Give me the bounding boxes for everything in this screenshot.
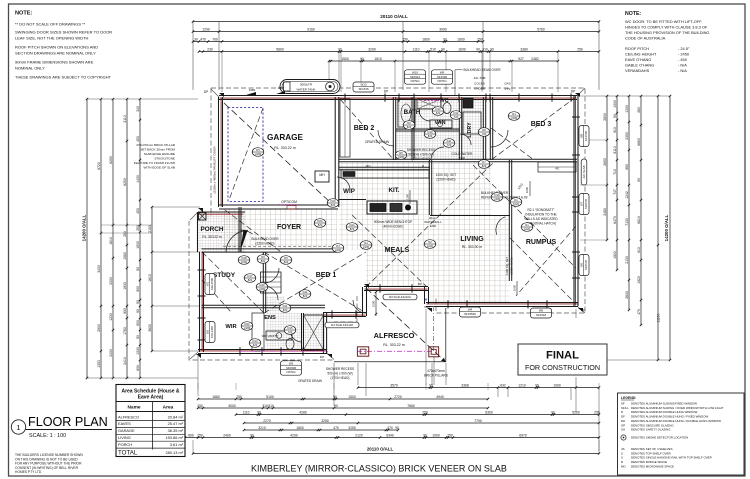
svg-text:ENS: ENS (264, 315, 276, 321)
svg-text:D12: D12 (454, 111, 459, 115)
svg-text:(1700 HEAD): (1700 HEAD) (331, 376, 350, 380)
svg-text:W4: W4 (468, 308, 473, 312)
svg-text:90: 90 (338, 47, 342, 51)
svg-text:SF1505: SF1505 (584, 131, 588, 142)
svg-text:FOYER: FOYER (277, 224, 301, 231)
svg-text:90: 90 (443, 37, 447, 41)
svg-text:MO: MO (366, 164, 371, 168)
svg-text:1690: 1690 (458, 47, 466, 51)
svg-text:820: 820 (284, 260, 289, 264)
svg-text:90: 90 (136, 267, 140, 271)
svg-text:250: 250 (447, 433, 453, 437)
svg-text:RL. 303.22 m: RL. 303.22 m (383, 343, 405, 347)
svg-text:LIVING: LIVING (118, 435, 131, 440)
svg-text:620: 620 (253, 343, 258, 347)
svg-text:90: 90 (613, 114, 617, 118)
svg-text:1000: 1000 (613, 100, 617, 108)
svg-text:510: 510 (430, 47, 436, 51)
svg-text:D10: D10 (428, 130, 433, 134)
svg-text:GAS: GAS (504, 82, 510, 86)
svg-text:D1: D1 (514, 198, 518, 202)
svg-text:L'DRY: L'DRY (467, 122, 473, 138)
svg-text:1610: 1610 (374, 57, 382, 61)
svg-text:3570: 3570 (390, 383, 398, 387)
svg-text:90: 90 (476, 47, 480, 51)
svg-text:SHOWER RECESS: SHOWER RECESS (326, 367, 354, 371)
svg-text:D20: D20 (260, 283, 265, 287)
svg-text:- N/A: - N/A (678, 68, 687, 73)
svg-text:(2200 HEAD): (2200 HEAD) (510, 257, 514, 274)
svg-text:LIVING: LIVING (460, 236, 484, 243)
svg-text:ALFRESCO: ALFRESCO (118, 414, 139, 419)
window jamb ticks on walls (344, 94, 346, 102)
svg-text:HINGES TO COMPLY WITH CLAUSE 3: HINGES TO COMPLY WITH CLAUSE 3.8.3 OF (625, 25, 708, 30)
svg-text:2350: 2350 (625, 132, 629, 140)
DP markers (219, 93, 224, 97)
svg-text:700: 700 (212, 37, 218, 41)
svg-text:SECTION DRAWINGS ARE NOMINAL O: SECTION DRAWINGS ARE NOMINAL ONLY (15, 51, 96, 56)
svg-text:BED 3: BED 3 (531, 121, 552, 128)
svg-text:990: 990 (625, 164, 629, 170)
svg-text:2300: 2300 (109, 277, 113, 285)
svg-text:D11: D11 (283, 304, 288, 308)
svg-text:250: 250 (136, 225, 140, 231)
svg-text:GARAGE: GARAGE (118, 428, 135, 433)
svg-text:1190: 1190 (406, 194, 410, 200)
svg-text:3000LTR: 3000LTR (300, 82, 313, 86)
svg-text:UNDER: UNDER (474, 87, 486, 91)
svg-text:** DO NOT SCALE OFF DRAWINGS *: ** DO NOT SCALE OFF DRAWINGS ** (15, 22, 86, 27)
svg-text:20110 O/ALL: 20110 O/ALL (380, 14, 408, 19)
svg-text:1350: 1350 (97, 360, 101, 368)
svg-text:1610: 1610 (109, 237, 113, 245)
svg-text:3400: 3400 (97, 265, 101, 273)
svg-text:90: 90 (257, 410, 261, 414)
svg-text:WITH EDGE OF SLAB: WITH EDGE OF SLAB (144, 166, 175, 170)
svg-text:D2: D2 (428, 240, 432, 244)
svg-text:3250: 3250 (321, 419, 329, 423)
svg-text:D1: D1 (525, 223, 529, 227)
svg-text:310: 310 (262, 404, 268, 408)
svg-text:D22: D22 (245, 322, 250, 326)
svg-text:3990: 3990 (439, 27, 447, 31)
svg-text:BRICK PILLARS: BRICK PILLARS (424, 374, 448, 378)
svg-text:470: 470 (637, 309, 641, 315)
svg-text:WATER TANK: WATER TANK (296, 87, 315, 91)
svg-text:250: 250 (577, 47, 583, 51)
svg-text:PORCH: PORCH (200, 226, 223, 233)
svg-text:6660: 6660 (637, 138, 641, 146)
svg-text:6810: 6810 (637, 216, 641, 224)
svg-text:250: 250 (123, 231, 127, 237)
svg-text:20.84 m²: 20.84 m² (168, 414, 184, 419)
door swing arcs (226, 231, 248, 253)
svg-text:4S: 4S (555, 167, 559, 171)
svg-text:470: 470 (200, 37, 206, 41)
svg-text:1800: 1800 (296, 426, 304, 430)
svg-text:D5: D5 (256, 148, 260, 152)
legend box (618, 393, 745, 475)
svg-text:820: 820 (482, 164, 487, 168)
svg-text:470: 470 (387, 426, 393, 430)
svg-text:1200: 1200 (109, 313, 113, 321)
svg-text:90: 90 (136, 309, 140, 313)
svg-text:6720: 6720 (97, 162, 101, 170)
svg-text:632: 632 (500, 383, 506, 387)
svg-text:W3: W3 (289, 361, 294, 365)
svg-text:6470: 6470 (613, 216, 617, 224)
svg-text:747: 747 (613, 189, 617, 195)
svg-text:FMR: FMR (249, 88, 256, 92)
svg-text:D3 SGD-F4210A: D3 SGD-F4210A (389, 295, 411, 299)
porch brick pillar (199, 213, 207, 221)
svg-text:820: 820 (350, 227, 355, 231)
svg-text:90: 90 (136, 335, 140, 339)
svg-text:Name: Name (127, 405, 140, 411)
svg-text:9160: 9160 (307, 27, 315, 31)
svg-text:250: 250 (594, 410, 600, 414)
svg-text:900: 900 (136, 320, 140, 326)
svg-text:90: 90 (535, 383, 539, 387)
svg-text:1500: 1500 (348, 395, 356, 399)
svg-text:(1700 HEAD): (1700 HEAD) (412, 157, 431, 161)
svg-text:A/C SLAB: A/C SLAB (582, 165, 586, 178)
svg-text:820: 820 (331, 203, 336, 207)
svg-text:D11: D11 (303, 290, 308, 294)
svg-text:820: 820 (407, 125, 412, 129)
svg-text:1780: 1780 (123, 327, 127, 335)
svg-text:SHOWER RECESS: SHOWER RECESS (407, 148, 435, 152)
svg-text:5200: 5200 (572, 410, 580, 414)
svg-text:820: 820 (318, 223, 323, 227)
svg-text:900: 900 (123, 308, 127, 314)
svg-text:470x470mm BRICK PILLAR: 470x470mm BRICK PILLAR (136, 143, 176, 147)
svg-text:7660: 7660 (407, 404, 415, 408)
svg-text:3368: 3368 (461, 383, 469, 387)
svg-text:GARAGE: GARAGE (267, 133, 303, 142)
svg-text:NOTE:: NOTE: (625, 11, 641, 17)
svg-text:OPTICOM: OPTICOM (281, 200, 297, 204)
svg-text:900: 900 (136, 286, 140, 292)
alfresco slab edge (445, 308, 447, 362)
svg-text:MO: MO (621, 464, 626, 468)
svg-text:NOTE:: NOTE: (15, 11, 33, 17)
floor tile grids (223, 209, 337, 249)
svg-text:INSULATION TO THE: INSULATION TO THE (525, 213, 556, 217)
svg-text:11150: 11150 (657, 313, 661, 322)
svg-text:2400: 2400 (223, 433, 231, 437)
svg-text:SF0535: SF0535 (584, 199, 588, 210)
svg-text:RL. 303.22 m: RL. 303.22 m (274, 146, 296, 150)
svg-text:620: 620 (436, 111, 441, 115)
svg-text:90: 90 (334, 404, 338, 408)
svg-text:(2200 HEAD): (2200 HEAD) (256, 242, 275, 246)
svg-text:280.13 m²: 280.13 m² (165, 450, 183, 455)
svg-text:D24: D24 (350, 223, 355, 227)
svg-text:2120: 2120 (355, 433, 363, 437)
svg-text:SF0535: SF0535 (584, 260, 588, 271)
svg-text:HOMES PTY LTD: HOMES PTY LTD (15, 470, 42, 474)
svg-text:3380: 3380 (520, 47, 528, 51)
svg-text:FOR CONSTRUCTION: FOR CONSTRUCTION (525, 363, 600, 372)
svg-text:1900: 1900 (123, 282, 127, 290)
svg-text:2270: 2270 (263, 419, 271, 423)
svg-text:SF1518: SF1518 (536, 313, 547, 317)
svg-text:470x470mm: 470x470mm (427, 369, 445, 373)
eave overhang dashed outline (189, 88, 585, 360)
svg-text:1300: 1300 (625, 105, 629, 113)
svg-text:W7: W7 (580, 201, 584, 206)
svg-text:90: 90 (395, 426, 399, 430)
svg-text:- N/A: - N/A (678, 63, 687, 68)
svg-text:THESE DRAWINGS ARE SUBJECT TO: THESE DRAWINGS ARE SUBJECT TO COPYRIGHT (15, 75, 112, 80)
svg-text:NOMINAL ONLY: NOMINAL ONLY (15, 66, 45, 71)
svg-text:U180: U180 (398, 155, 405, 159)
external walls (219, 95, 577, 97)
svg-text:450: 450 (136, 136, 140, 142)
svg-text:SET BACK 30mm FROM: SET BACK 30mm FROM (140, 148, 175, 152)
svg-text:7790: 7790 (474, 419, 482, 423)
garage slab blue dashed rect (228, 108, 263, 202)
svg-text:720: 720 (454, 115, 459, 119)
svg-text:1000: 1000 (525, 186, 529, 193)
svg-text:D7: D7 (482, 160, 486, 164)
svg-text:250: 250 (422, 410, 428, 414)
svg-text:SF0912: SF0912 (410, 75, 421, 79)
svg-text:1: 1 (16, 423, 20, 432)
svg-text:5100: 5100 (266, 395, 274, 399)
svg-text:500 (H) x 500 (W): 500 (H) x 500 (W) (408, 153, 433, 157)
svg-text:90: 90 (441, 47, 445, 51)
svg-text:DENOTES MICROWAVE SPACE: DENOTES MICROWAVE SPACE (631, 464, 674, 468)
svg-text:2400: 2400 (109, 349, 113, 357)
svg-text:90: 90 (333, 395, 337, 399)
svg-text:FLOOR PLAN: FLOOR PLAN (28, 415, 108, 429)
svg-text:D18: D18 (242, 256, 247, 260)
svg-text:6250: 6250 (123, 178, 127, 186)
svg-text:RL. 303.30 m: RL. 303.30 m (462, 245, 483, 249)
svg-text:1580: 1580 (123, 252, 127, 260)
svg-text:BULKHEAD BEAM OVER: BULKHEAD BEAM OVER (464, 68, 502, 72)
svg-text:1020: 1020 (513, 202, 519, 206)
svg-text:REFER TO DETAIL SHEET A.09: REFER TO DETAIL SHEET A.09 (481, 196, 528, 200)
svg-text:BED 1: BED 1 (316, 272, 337, 279)
svg-text:KIT.: KIT. (389, 187, 400, 194)
svg-text:3630: 3630 (148, 324, 152, 332)
svg-text:R2.1 “SONOBATT”: R2.1 “SONOBATT” (527, 208, 554, 212)
svg-text:1920: 1920 (637, 276, 641, 284)
svg-text:90: 90 (551, 410, 555, 414)
svg-text:SLAB EDGE ENSURE: SLAB EDGE ENSURE (144, 152, 175, 156)
svg-text:1200 SQ. SET: 1200 SQ. SET (436, 173, 457, 177)
insulation diagonal hatch dashes (340, 99, 394, 160)
svg-text:OP/SG: OP/SG (286, 370, 296, 374)
svg-text:7130: 7130 (625, 218, 629, 226)
svg-text:5760: 5760 (537, 27, 545, 31)
svg-text:90: 90 (429, 383, 433, 387)
svg-text:D6: D6 (284, 256, 288, 260)
svg-text:FINAL: FINAL (546, 350, 579, 362)
svg-text:1020: 1020 (524, 227, 530, 231)
svg-text:1880: 1880 (212, 395, 220, 399)
svg-text:1610: 1610 (148, 274, 152, 282)
svg-text:CBT: CBT (278, 86, 284, 90)
svg-text:1242: 1242 (625, 191, 629, 199)
ens fixtures (304, 315, 324, 350)
svg-text:1500: 1500 (341, 57, 349, 61)
svg-text:2600: 2600 (625, 291, 629, 299)
svg-text:20110 O/ALL: 20110 O/ALL (367, 447, 394, 452)
svg-text:6250: 6250 (109, 156, 113, 164)
svg-text:- 450: - 450 (678, 57, 688, 62)
svg-text:W5: W5 (539, 309, 544, 313)
svg-text:230: 230 (207, 47, 213, 51)
svg-text:THE HOUSING PROVISION OF THE B: THE HOUSING PROVISION OF THE BUILDING (625, 30, 709, 35)
svg-text:SF1515: SF1515 (358, 87, 369, 91)
svg-text:W8: W8 (580, 133, 584, 138)
svg-text:PTS: PTS (505, 87, 511, 91)
svg-text:470: 470 (333, 426, 339, 430)
svg-text:SGL1500: SGL1500 (210, 278, 214, 291)
svg-text:SWINGING DOOR SIZES SHOWN REFE: SWINGING DOOR SIZES SHOWN REFER TO DOOR (15, 30, 112, 35)
svg-text:6970: 6970 (519, 433, 527, 437)
svg-text:900mm WIDE BENCHTOP: 900mm WIDE BENCHTOP (374, 220, 412, 224)
svg-text:CSL1306: CSL1306 (210, 326, 214, 338)
svg-text:EAVES: EAVES (118, 421, 131, 426)
svg-text:OP/SG: OP/SG (437, 79, 447, 83)
alfresco area (357, 350, 434, 352)
svg-text:W10: W10 (412, 70, 418, 74)
svg-text:1500: 1500 (372, 300, 376, 307)
svg-text:1000: 1000 (136, 347, 140, 355)
svg-text:(2360h x 4800w) PANELIFT DOOR: (2360h x 4800w) PANELIFT DOOR (213, 146, 217, 194)
svg-text:4940: 4940 (436, 395, 444, 399)
svg-text:340: 340 (136, 106, 140, 112)
svg-text:280: 280 (637, 107, 641, 113)
svg-text:BATH: BATH (404, 109, 421, 116)
svg-text:710: 710 (613, 169, 617, 175)
svg-text:FEATURE TO FINISH FLUSH: FEATURE TO FINISH FLUSH (134, 161, 175, 165)
svg-text:2720: 2720 (394, 395, 402, 399)
svg-text:SF0906: SF0906 (286, 366, 297, 370)
svg-text:DP: DP (320, 355, 324, 359)
svg-text:500 (H) x 500 (W): 500 (H) x 500 (W) (327, 372, 352, 376)
svg-text:GRATED DRAIN: GRATED DRAIN (365, 140, 390, 144)
svg-text:W2: W2 (206, 329, 210, 334)
svg-text:D4: D4 (364, 241, 368, 245)
svg-text:2410: 2410 (123, 357, 127, 365)
svg-text:- 24.5°: - 24.5° (678, 46, 690, 51)
svg-text:2650: 2650 (603, 158, 607, 166)
svg-text:D5: D5 (399, 151, 403, 155)
garage diagonal dashed line (224, 103, 332, 204)
svg-text:1300 SQ. SET: 1300 SQ. SET (505, 256, 509, 275)
svg-text:2900: 2900 (97, 324, 101, 332)
svg-text:COLD WATER: COLD WATER (452, 152, 474, 156)
svg-text:1000: 1000 (513, 284, 517, 291)
svg-text:30: 30 (194, 37, 198, 41)
svg-text:1110: 1110 (243, 410, 250, 414)
svg-text:600: 600 (136, 365, 140, 371)
svg-text:3000: 3000 (228, 404, 236, 408)
svg-text:4200: 4200 (290, 433, 298, 437)
interior walls (392, 97, 394, 160)
svg-text:1000: 1000 (432, 433, 440, 437)
water tank (280, 80, 340, 94)
svg-text:1210: 1210 (518, 383, 526, 387)
svg-text:250: 250 (197, 404, 203, 408)
svg-text:90mm FRAME DIMENSIONS SHOWN AR: 90mm FRAME DIMENSIONS SHOWN ARE (15, 60, 94, 65)
svg-text:193.86 m²: 193.86 m² (165, 435, 183, 440)
svg-text:D4 SGD-KF2118: D4 SGD-KF2118 (331, 323, 353, 327)
svg-text:W9: W9 (440, 70, 445, 74)
svg-text:90: 90 (250, 433, 254, 437)
svg-text:WIP: WIP (343, 188, 355, 195)
svg-text:2480: 2480 (603, 208, 607, 216)
svg-text:DENOTES SAFETY GLAZING: DENOTES SAFETY GLAZING (631, 428, 671, 432)
svg-text:1900: 1900 (553, 383, 561, 387)
svg-text:DP: DP (571, 90, 575, 94)
svg-text:ROOF PITCH: ROOF PITCH (625, 46, 649, 51)
FINAL stamp (518, 344, 607, 375)
entry door (240, 230, 248, 252)
svg-text:D23: D23 (331, 199, 336, 203)
svg-text:D11: D11 (447, 139, 452, 143)
svg-text:U180: U180 (511, 116, 518, 120)
svg-text:90: 90 (637, 178, 641, 182)
svg-text:COCKS: COCKS (474, 81, 485, 85)
svg-text:90: 90 (136, 300, 140, 304)
svg-text:1000: 1000 (241, 260, 247, 264)
svg-text:DP: DP (204, 90, 208, 94)
svg-text:D4: D4 (336, 244, 340, 248)
svg-text:D13: D13 (436, 107, 441, 111)
svg-text:*: * (425, 296, 428, 305)
svg-text:1920: 1920 (613, 251, 617, 259)
svg-text:ALFRESCO: ALFRESCO (374, 331, 415, 340)
svg-text:927: 927 (518, 57, 524, 61)
svg-text:2482: 2482 (531, 57, 539, 61)
svg-text:OP/SG: OP/SG (410, 79, 420, 83)
svg-text:42L TUB: 42L TUB (474, 76, 486, 80)
svg-text:8110: 8110 (613, 146, 617, 153)
svg-text:6300: 6300 (485, 410, 493, 414)
svg-text:90: 90 (360, 57, 364, 61)
svg-text:1290: 1290 (202, 27, 210, 31)
svg-text:6340: 6340 (386, 433, 394, 437)
svg-text:VERANDAHS: VERANDAHS (625, 68, 650, 73)
svg-text:U180: U180 (494, 197, 501, 201)
svg-text:90: 90 (423, 433, 427, 437)
svg-text:W13: W13 (361, 83, 367, 87)
svg-text:BULKHEAD OVER: BULKHEAD OVER (251, 237, 279, 241)
svg-text:MEALS: MEALS (385, 247, 410, 254)
svg-text:3.61 m²: 3.61 m² (170, 442, 184, 447)
svg-text:1900: 1900 (136, 241, 140, 249)
svg-text:D9: D9 (261, 255, 265, 259)
svg-text:WC DOOR: TO BE FITTED WITH LI: WC DOOR: TO BE FITTED WITH LIFT-OFF (625, 19, 702, 24)
svg-text:DP: DP (581, 308, 585, 312)
svg-text:600: 600 (188, 433, 194, 437)
svg-text:WALLS AS INDICATED: WALLS AS INDICATED (524, 217, 558, 221)
kitchen bench (367, 201, 417, 214)
svg-text:2110: 2110 (123, 115, 127, 122)
robes (340, 99, 350, 157)
bottom extension lines (197, 356, 199, 396)
svg-text:ROOF PITCH SHOWN ON ELEVATIONS: ROOF PITCH SHOWN ON ELEVATIONS AND (15, 45, 98, 50)
svg-text:RL. 303.22 m: RL. 303.22 m (202, 235, 221, 239)
svg-text:1020: 1020 (427, 244, 433, 248)
